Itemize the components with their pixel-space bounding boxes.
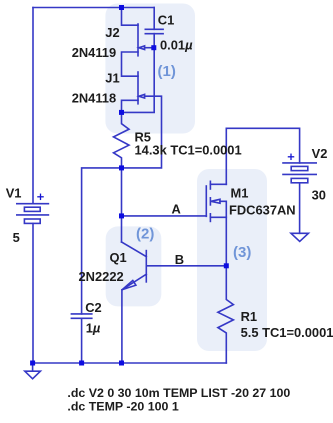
junction rail / ground <box>30 361 35 366</box>
svg-text:2N4119: 2N4119 <box>72 45 116 60</box>
svg-text:.dc V2 0 30 10m TEMP LIST -20: .dc V2 0 30 10m TEMP LIST -20 27 100 <box>67 386 290 400</box>
wire node to A <box>121 168 123 216</box>
svg-text:.dc TEMP -20 100 1: .dc TEMP -20 100 1 <box>67 400 178 414</box>
capacitor C2 <box>71 314 91 318</box>
junction node A <box>119 213 124 218</box>
svg-text:R1: R1 <box>241 309 257 324</box>
svg-text:B: B <box>175 252 184 267</box>
battery V1 <box>17 204 49 224</box>
wire M1 source down <box>225 217 227 265</box>
transistor Q1 <box>122 242 147 290</box>
junction node B / R1 top <box>224 263 229 268</box>
svg-text:M1: M1 <box>231 186 249 201</box>
wire bottom rail <box>33 362 226 364</box>
junction R5 bottom / node <box>119 165 124 170</box>
ground (V2) <box>291 233 308 241</box>
svg-text:C2: C2 <box>85 300 101 315</box>
wire J1 gate to R5 bottom <box>122 96 162 168</box>
wire C2 bottom <box>81 318 83 363</box>
junction rail / C2 <box>79 361 84 366</box>
svg-text:J1: J1 <box>105 71 119 86</box>
ground (V1 rail) <box>25 363 41 379</box>
svg-text:V2: V2 <box>312 146 328 161</box>
wire J2 drain <box>122 8 139 26</box>
svg-text:C1: C1 <box>158 13 174 28</box>
V2 plus sign <box>288 154 293 159</box>
battery V2 <box>283 163 316 183</box>
wire A to Q1 collector <box>121 216 123 242</box>
wire J2 source to J1 drain <box>122 52 139 76</box>
wire V2 to ground <box>299 183 301 233</box>
resistor R1 <box>218 266 234 363</box>
svg-text:(3): (3) <box>233 244 251 261</box>
junction top rail / J2 drain <box>119 5 124 10</box>
wire Q1 emitter down <box>121 290 123 363</box>
wire C1 top stem <box>153 8 155 30</box>
junction C1 / J2 gate <box>151 45 156 50</box>
junction rail / Q1 emitter <box>119 361 124 366</box>
capacitor C1 <box>145 29 163 33</box>
wire J1 source <box>122 100 139 112</box>
highlight region 3 (M1/R1) <box>197 169 267 351</box>
junction J1 source / R5 top <box>119 110 124 115</box>
wire Q1 base node B <box>146 265 226 267</box>
resistor R5 <box>114 112 130 167</box>
svg-text:Q1: Q1 <box>110 250 127 265</box>
svg-text:2N2222: 2N2222 <box>79 269 124 284</box>
svg-text:V1: V1 <box>6 186 22 201</box>
svg-text:A: A <box>172 201 181 216</box>
svg-text:(2): (2) <box>136 226 154 243</box>
svg-text:J2: J2 <box>105 25 119 40</box>
svg-text:5: 5 <box>13 230 20 245</box>
JFET J1 <box>138 72 145 104</box>
wire V1 bottom <box>32 224 34 364</box>
wire top rail <box>33 7 154 9</box>
svg-text:0.01µ: 0.01µ <box>160 37 193 52</box>
wire M1 drain to V2 <box>226 128 299 184</box>
JFET J2 <box>138 24 145 56</box>
wire J2 gate to C1 node <box>145 47 154 49</box>
wire R5 bottom node to C2 <box>82 168 122 314</box>
svg-text:1µ: 1µ <box>86 321 101 336</box>
svg-text:5.5 TC1=0.0001: 5.5 TC1=0.0001 <box>241 325 333 340</box>
V1 plus sign <box>38 194 43 199</box>
mosfet M1 <box>206 181 226 221</box>
svg-text:(1): (1) <box>158 63 176 80</box>
svg-text:14.3k TC1=0.0001: 14.3k TC1=0.0001 <box>135 142 242 157</box>
svg-text:2N4118: 2N4118 <box>72 91 116 106</box>
highlight region 1 (J1/J2/C1) <box>105 4 195 134</box>
svg-text:FDC637AN: FDC637AN <box>229 203 296 218</box>
wire left rail <box>32 8 34 204</box>
highlight region 2 (Q1) <box>106 226 162 306</box>
wire C1 bottom to J1 source node <box>122 34 155 113</box>
wire node A to M1 gate <box>122 215 207 217</box>
svg-text:30: 30 <box>312 188 326 203</box>
